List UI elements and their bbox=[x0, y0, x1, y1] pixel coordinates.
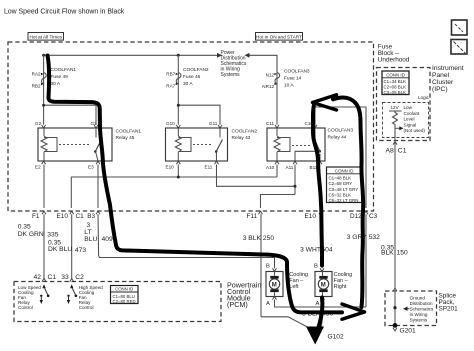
svg-text:Hot in ON and START: Hot in ON and START bbox=[256, 34, 302, 39]
svg-text:RA7: RA7 bbox=[166, 84, 175, 89]
crossing labels F11 E10 D12 C3 bbox=[247, 213, 378, 220]
svg-text:A10: A10 bbox=[266, 165, 275, 170]
svg-text:G10: G10 bbox=[166, 121, 175, 126]
svg-text:(Not used): (Not used) bbox=[404, 128, 426, 133]
svg-text:F1: F1 bbox=[32, 213, 40, 220]
svg-text:42: 42 bbox=[34, 274, 42, 281]
svg-text:A8: A8 bbox=[386, 148, 395, 155]
svg-text:33: 33 bbox=[61, 274, 69, 281]
svg-text:150: 150 bbox=[397, 249, 408, 256]
svg-text:Relay 44: Relay 44 bbox=[328, 135, 347, 141]
fuse F46 COOLFAN2 bbox=[166, 55, 209, 124]
wire 473 E10 to PCM 33 bbox=[48, 214, 86, 281]
svg-text:Relay 45: Relay 45 bbox=[116, 135, 135, 141]
svg-text:CONN ID: CONN ID bbox=[386, 73, 405, 78]
svg-text:C2=80 RED: C2=80 RED bbox=[113, 299, 136, 304]
label box Hot in ON and START bbox=[256, 33, 303, 41]
svg-text:CONN ID: CONN ID bbox=[335, 169, 354, 174]
ground run 250 to G102 bbox=[261, 317, 320, 332]
fuse block CONN ID table bbox=[327, 167, 363, 203]
svg-text:N12: N12 bbox=[266, 73, 275, 78]
svg-text:C11: C11 bbox=[266, 121, 275, 126]
crossing chevrons on fuse block bottom bbox=[42, 211, 368, 214]
svg-text:C1: C1 bbox=[398, 148, 407, 155]
svg-text:C3=48 LT GRY: C3=48 LT GRY bbox=[329, 187, 359, 192]
svg-text:Left: Left bbox=[289, 284, 299, 290]
svg-text:473: 473 bbox=[75, 247, 86, 254]
svg-text:532: 532 bbox=[369, 234, 380, 241]
svg-text:LT: LT bbox=[84, 229, 91, 236]
svg-text:BLU: BLU bbox=[84, 236, 97, 243]
junction node bus fuse49 bbox=[42, 54, 45, 57]
nav icon 1 bbox=[452, 20, 468, 35]
IPC pins A8 C1 bbox=[386, 142, 407, 155]
svg-text:M: M bbox=[321, 283, 326, 289]
svg-text:COOLFAN1: COOLFAN1 bbox=[51, 67, 77, 73]
svg-text:C2: C2 bbox=[75, 274, 84, 281]
ground G201 bbox=[393, 323, 416, 335]
wire 409 B3 to left fan B bbox=[84, 214, 276, 271]
power distribution schematics note bbox=[221, 50, 247, 78]
svg-text:E11: E11 bbox=[205, 165, 213, 170]
PCM dashed box bbox=[14, 281, 261, 322]
fuse block underhood dashed box bbox=[8, 42, 410, 211]
relay K43 COOLFAN2 Relay 43 bbox=[166, 121, 258, 170]
thick flow right fan to G102 bbox=[318, 298, 322, 330]
wire feed split relay45 bbox=[42, 104, 96, 125]
svg-text:0.35: 0.35 bbox=[18, 224, 31, 231]
svg-text:30 A: 30 A bbox=[51, 81, 61, 87]
svg-text:C3: C3 bbox=[369, 213, 378, 220]
svg-text:RB7: RB7 bbox=[166, 72, 175, 77]
svg-text:COOLFAN3: COOLFAN3 bbox=[328, 128, 354, 134]
relay K44 COOLFAN3 Relay 44 bbox=[266, 121, 353, 170]
svg-text:Low Speed Circuit Flow shown i: Low Speed Circuit Flow shown in Black bbox=[4, 9, 125, 16]
svg-text:Control: Control bbox=[79, 305, 94, 310]
PCM pin labels 42 C1 33 C2 bbox=[34, 274, 85, 281]
svg-text:in Wiring: in Wiring bbox=[410, 312, 428, 317]
svg-text:A11: A11 bbox=[286, 165, 294, 170]
svg-text:B: B bbox=[314, 263, 318, 269]
relay K45 COOLFAN1 Relay 45 bbox=[35, 121, 141, 170]
left fan motor bbox=[266, 263, 308, 307]
svg-text:Relay 43: Relay 43 bbox=[232, 135, 251, 141]
svg-text:E10: E10 bbox=[166, 165, 175, 170]
svg-text:COOLFAN2: COOLFAN2 bbox=[183, 67, 209, 73]
svg-text:G2: G2 bbox=[35, 121, 42, 126]
svg-text:C6=32 LT GRN: C6=32 LT GRN bbox=[329, 198, 359, 203]
svg-text:B: B bbox=[266, 263, 270, 269]
PCM high speed driver bbox=[67, 284, 103, 310]
svg-text:F11: F11 bbox=[247, 213, 258, 220]
wire 532 D12 down to jumper bbox=[347, 214, 380, 307]
wire net relay outputs h1 473 bbox=[71, 165, 277, 209]
svg-text:10 A: 10 A bbox=[284, 83, 294, 89]
label box Hot at All Times bbox=[28, 33, 64, 41]
svg-text:Panel: Panel bbox=[432, 72, 450, 79]
svg-text:Systems: Systems bbox=[221, 72, 241, 78]
thick flow through relay44 to right fan bbox=[313, 105, 322, 266]
svg-text:E10: E10 bbox=[305, 213, 317, 220]
svg-text:E10: E10 bbox=[57, 213, 69, 220]
svg-text:C1=34 BLK: C1=34 BLK bbox=[384, 79, 407, 84]
bus wire hot in on segment bbox=[245, 53, 278, 73]
svg-text:RA2: RA2 bbox=[32, 72, 41, 77]
wire E3 to B3 bbox=[97, 165, 99, 209]
right fan motor bbox=[314, 263, 352, 307]
svg-text:Schematics: Schematics bbox=[410, 307, 434, 312]
IPC CONN ID table bbox=[382, 71, 409, 95]
svg-text:Level: Level bbox=[404, 117, 415, 122]
svg-text:3: 3 bbox=[87, 222, 91, 229]
svg-text:Logic: Logic bbox=[418, 95, 430, 100]
svg-text:NR12: NR12 bbox=[262, 84, 274, 89]
svg-text:E3: E3 bbox=[88, 165, 94, 170]
jumper wire left fan A to 532 bbox=[273, 297, 367, 308]
svg-text:Fuse 46: Fuse 46 bbox=[183, 74, 201, 80]
svg-text:G11: G11 bbox=[209, 121, 218, 126]
svg-text:BLK: BLK bbox=[381, 250, 394, 257]
wire feed split relay43 bbox=[177, 104, 220, 125]
svg-text:(PCM): (PCM) bbox=[227, 300, 248, 309]
svg-text:Systems: Systems bbox=[410, 318, 428, 323]
svg-text:E2: E2 bbox=[35, 165, 41, 170]
bus wire hot at all times bbox=[44, 53, 222, 58]
svg-text:C2=08 BLK: C2=08 BLK bbox=[384, 84, 407, 89]
fuse F14 COOLFAN3 bbox=[262, 55, 310, 124]
svg-text:Ground: Ground bbox=[410, 296, 426, 301]
svg-text:C1: C1 bbox=[76, 213, 85, 220]
svg-text:G201: G201 bbox=[400, 328, 416, 335]
wire 335 F1 to PCM 42 bbox=[18, 214, 59, 281]
svg-text:COOLFAN1: COOLFAN1 bbox=[116, 129, 142, 135]
wire E2 to F1 bbox=[43, 165, 45, 209]
svg-text:C1=48 BLK: C1=48 BLK bbox=[329, 175, 352, 180]
svg-text:A: A bbox=[266, 301, 270, 307]
svg-text:12V: 12V bbox=[391, 105, 400, 110]
svg-text:B3: B3 bbox=[87, 213, 95, 220]
wire C10 feed from relay44 up and over to D12 bbox=[315, 107, 366, 208]
svg-text:Cluster: Cluster bbox=[432, 79, 454, 86]
svg-text:A: A bbox=[316, 301, 320, 307]
svg-text:Control: Control bbox=[18, 305, 33, 310]
fuse F49 COOLFAN1 bbox=[32, 55, 77, 105]
svg-text:C3=05 BLK: C3=05 BLK bbox=[384, 90, 407, 95]
svg-text:M: M bbox=[272, 283, 277, 289]
svg-text:Instrument: Instrument bbox=[432, 65, 464, 72]
svg-text:D12: D12 bbox=[350, 213, 362, 220]
nav icon 2 bbox=[451, 40, 467, 55]
svg-text:COOLFAN3: COOLFAN3 bbox=[284, 69, 310, 75]
svg-text:Underhood: Underhood bbox=[378, 57, 410, 64]
svg-text:3 BLK: 3 BLK bbox=[243, 235, 262, 242]
svg-text:Fuse 14: Fuse 14 bbox=[284, 76, 302, 82]
ground wire right fan A to G102 bbox=[302, 297, 334, 332]
wire 150 IPC to splice pack bbox=[381, 138, 408, 289]
wire net E11 A11 h2 h3 to F11 bbox=[217, 165, 297, 209]
svg-text:30 A: 30 A bbox=[183, 81, 193, 87]
IPC logic box bbox=[383, 95, 430, 138]
thick arrow right at jumper bbox=[342, 304, 365, 319]
PCM low speed driver bbox=[18, 284, 50, 310]
crossing labels F1 E10 C1 B3 bbox=[32, 213, 96, 220]
thick low speed flow fuse49 to fans feed bbox=[48, 56, 343, 313]
svg-text:G102: G102 bbox=[328, 334, 344, 341]
svg-text:DK GRN: DK GRN bbox=[18, 231, 44, 238]
svg-text:C2=68 GRY: C2=68 GRY bbox=[329, 181, 353, 186]
svg-text:3 WHT: 3 WHT bbox=[300, 247, 321, 254]
IPC dashed box bbox=[377, 65, 464, 141]
thick arrow down G102 bbox=[306, 327, 324, 345]
svg-text:409: 409 bbox=[102, 236, 113, 243]
svg-text:Distribution: Distribution bbox=[410, 301, 433, 306]
svg-text:Fuse 49: Fuse 49 bbox=[51, 74, 69, 80]
svg-text:C5=32 BLK: C5=32 BLK bbox=[329, 193, 352, 198]
svg-text:Signal: Signal bbox=[404, 122, 417, 127]
svg-text:250: 250 bbox=[263, 235, 274, 242]
svg-text:Right: Right bbox=[334, 284, 347, 290]
svg-text:RB2: RB2 bbox=[32, 84, 41, 89]
thick flow up wire 532 bbox=[333, 98, 363, 307]
svg-text:DK BLU: DK BLU bbox=[48, 246, 72, 253]
junction node bus fuse46 bbox=[177, 54, 180, 57]
svg-text:335: 335 bbox=[47, 232, 58, 239]
svg-text:SP201: SP201 bbox=[439, 306, 459, 313]
svg-text:COOLFAN2: COOLFAN2 bbox=[232, 129, 258, 135]
svg-text:Low: Low bbox=[404, 105, 413, 110]
wire 504 E10 to right fan B bbox=[300, 214, 333, 271]
svg-text:Coolant: Coolant bbox=[404, 111, 421, 116]
splice pack internals bbox=[393, 288, 434, 325]
svg-text:Hot at All Times: Hot at All Times bbox=[30, 34, 63, 39]
splice pack SP201 dashed box bbox=[385, 291, 458, 326]
svg-text:C1: C1 bbox=[48, 274, 57, 281]
wire 250 F11 to ground run bbox=[243, 214, 275, 317]
thick arrow left into relay44 bbox=[313, 95, 337, 110]
svg-text:CONN ID: CONN ID bbox=[115, 287, 133, 292]
svg-text:(IPC): (IPC) bbox=[432, 86, 448, 93]
PCM CONN ID table bbox=[111, 286, 139, 304]
